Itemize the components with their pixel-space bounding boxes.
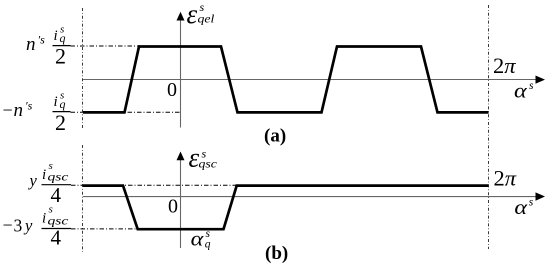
svg-text:(a): (a) [264, 126, 286, 147]
label n's iq/2 (a high level) [26, 24, 71, 69]
svg-text:2: 2 [55, 44, 66, 69]
svg-text:n: n [26, 34, 36, 55]
svg-text:i: i [42, 167, 46, 183]
svg-text:s: s [529, 197, 534, 209]
axis label alpha s (b) [514, 195, 533, 218]
y-axis (b) [180, 158, 182, 248]
left boundary dashed line (plot b) [82, 145, 84, 252]
svg-text:i: i [54, 94, 58, 110]
svg-text:s: s [49, 204, 53, 216]
axis label epsilon qsc (b) [189, 143, 218, 173]
svg-text:′s: ′s [38, 33, 46, 47]
x-axis arrowhead (b) [536, 192, 546, 200]
svg-text:0: 0 [167, 79, 177, 101]
label alpha q s (b below axis) [191, 227, 211, 251]
svg-text:−: − [3, 215, 13, 235]
svg-text:ε: ε [187, 0, 198, 29]
svg-text:qsc: qsc [199, 158, 218, 171]
svg-text:s: s [529, 80, 534, 92]
high level dash-dot reference (a) [71, 45, 140, 47]
y-axis (a) [180, 18, 182, 128]
axis label alpha s (a) [514, 79, 534, 102]
x-axis (a) [83, 79, 538, 81]
label -n's iq/2 (a low level) [3, 90, 71, 135]
high level dash-dot reference (b) [71, 184, 237, 186]
low level dash-dot reference (b) [71, 228, 138, 230]
x-axis arrowhead (a) [536, 76, 546, 84]
svg-text:0: 0 [168, 196, 178, 218]
label y iqsc/4 (b high level) [28, 160, 72, 207]
svg-text:n: n [14, 100, 24, 121]
svg-text:qsc: qsc [48, 171, 70, 184]
svg-text:2π: 2π [494, 166, 517, 191]
svg-text:′s: ′s [25, 99, 33, 113]
x-axis (b) [83, 196, 538, 198]
svg-text:i: i [42, 211, 46, 227]
svg-text:α: α [514, 79, 528, 102]
svg-text:4: 4 [51, 225, 62, 249]
waveform (b) trapezoidal wave [83, 186, 489, 230]
axis label epsilon qel (a) [187, 0, 215, 29]
y-axis arrowhead (a) [177, 12, 185, 21]
svg-text:α: α [514, 195, 528, 218]
svg-text:q: q [205, 239, 211, 251]
svg-text:3: 3 [14, 216, 23, 236]
svg-text:2π: 2π [493, 53, 516, 78]
label -3y iqsc/4 (b low level) [3, 204, 72, 250]
left boundary dashed line (plot a) [82, 8, 84, 129]
low level dash-dot reference (a) [71, 111, 181, 113]
svg-text:s: s [49, 160, 53, 172]
waveform (a) trapezoidal wave [83, 47, 489, 113]
svg-text:qel: qel [198, 13, 215, 26]
y-axis arrowhead (b) [177, 152, 185, 161]
svg-text:y: y [23, 216, 33, 235]
svg-text:(b): (b) [265, 243, 288, 264]
svg-text:−: − [3, 100, 13, 120]
svg-text:2: 2 [55, 110, 66, 135]
svg-text:α: α [191, 227, 205, 250]
svg-text:i: i [54, 28, 58, 44]
right boundary dashed line at 2pi [488, 5, 490, 249]
svg-text:y: y [28, 171, 38, 190]
